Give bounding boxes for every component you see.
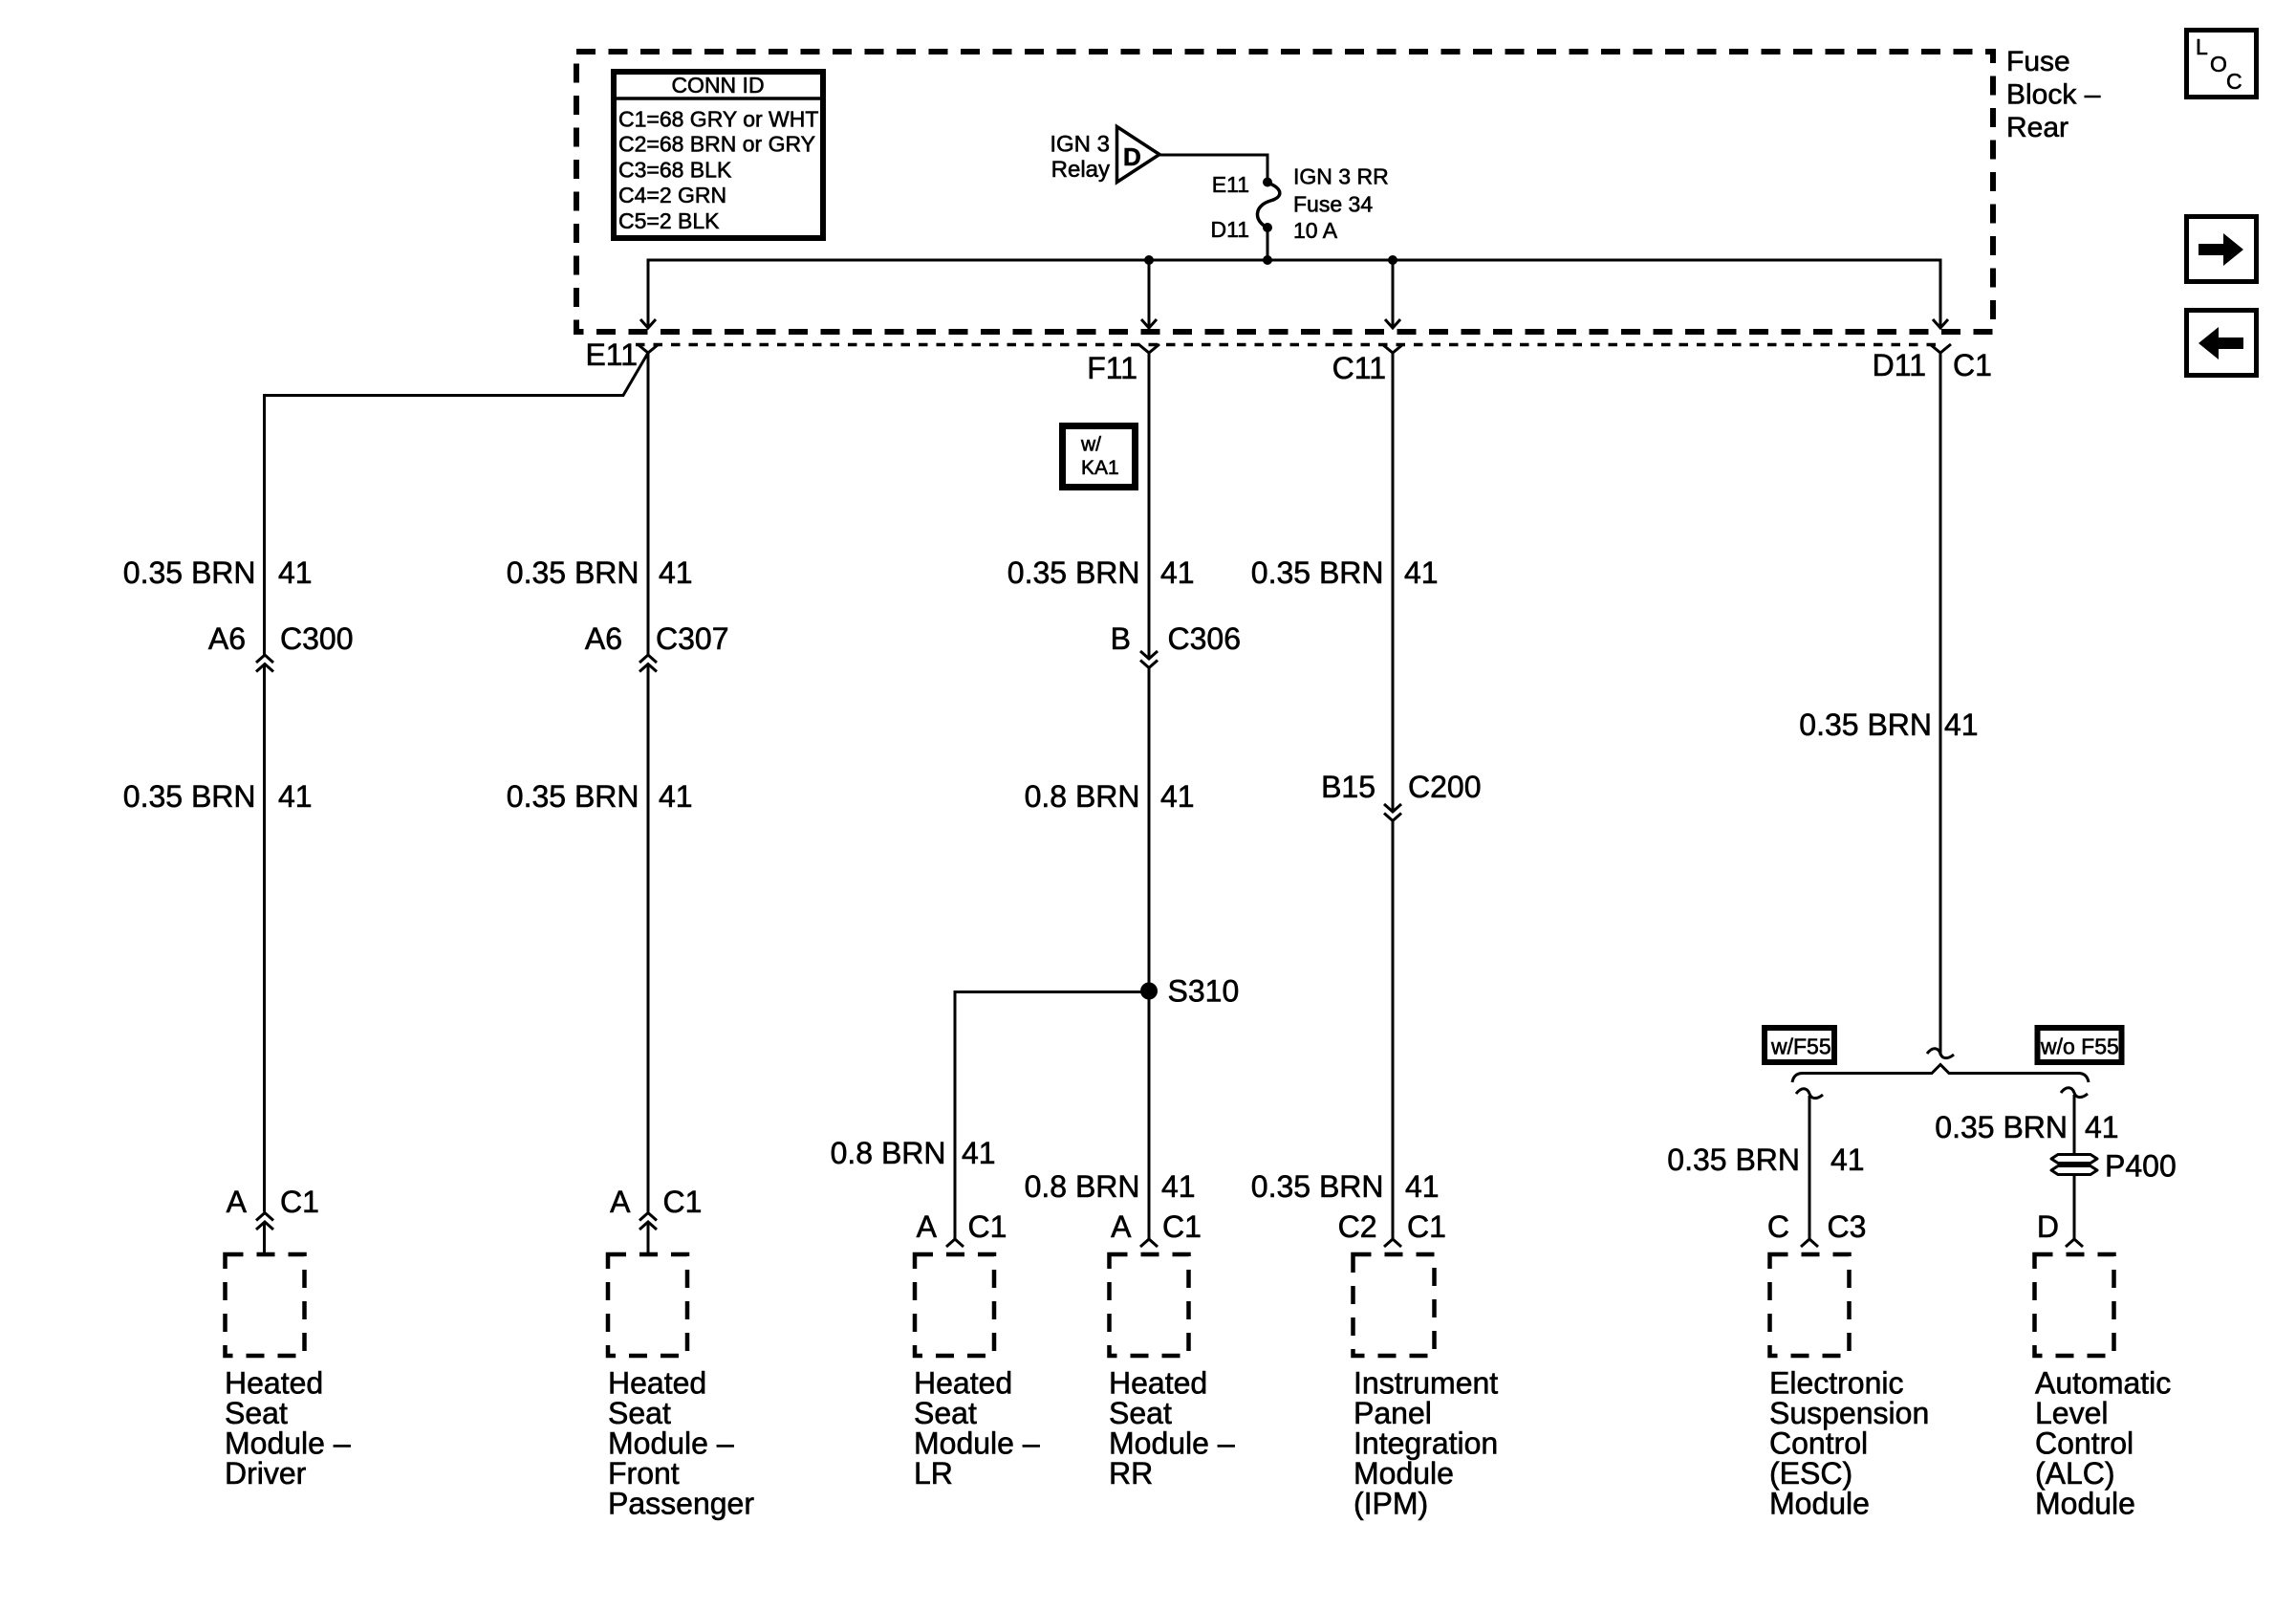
wire drop F11 [1148,260,1151,328]
svg-text:P400: P400 [2105,1149,2177,1184]
svg-text:0.35 BRN: 0.35 BRN [123,779,256,814]
wire label D11 column 0.35 BRN [1799,708,1978,742]
connector C1 dashed line (fuse block bottom) [636,343,1940,347]
right arrow nav box [2187,217,2257,282]
connector A/C1 driver labels [227,1185,319,1219]
connector C300 [256,655,273,672]
node D11 (fuse bottom) [1263,223,1272,232]
selection brace [1792,1065,2089,1083]
wire ALC branch upper [2073,1095,2076,1154]
svg-text:Module: Module [2035,1487,2135,1521]
connector A/C1 driver [256,1213,273,1254]
module box Heated Seat Module - RR [1110,1254,1189,1356]
module box ESC [1770,1254,1850,1356]
svg-text:C2: C2 [1338,1209,1377,1244]
svg-text:C1: C1 [1162,1209,1202,1244]
wire col2 below C307 [647,664,650,1212]
connector terminal D11 / C1 [1930,344,1951,353]
module box Heated Seat Module - Front Passenger [608,1254,687,1356]
svg-text:41: 41 [1944,708,1979,742]
wire col1 below C300 [263,664,266,1212]
CONN ID table [614,72,823,238]
svg-text:Relay: Relay [1051,157,1110,183]
svg-text:Driver: Driver [225,1456,307,1491]
svg-text:0.35 BRN: 0.35 BRN [507,555,639,590]
svg-text:C11: C11 [1332,351,1386,385]
connector A/C1 front passenger labels [610,1185,702,1219]
svg-text:A: A [917,1209,938,1244]
svg-text:Module: Module [1769,1487,1870,1521]
wire label col2 row2 [507,779,693,814]
connector C/C3 ESC labels [1767,1209,1867,1244]
svg-text:C: C [2226,69,2242,94]
svg-text:A6: A6 [208,621,246,656]
connector C2/C1 IPM labels [1338,1209,1446,1244]
connector terminal E11 [638,344,659,353]
svg-text:41: 41 [1405,1169,1440,1204]
svg-text:KA1: KA1 [1081,457,1119,479]
option box w/F55 [1765,1028,1834,1062]
svg-text:E11: E11 [1212,172,1249,197]
svg-text:Block –: Block – [2006,79,2101,111]
svg-text:0.8 BRN: 0.8 BRN [1025,779,1140,814]
svg-text:0.35 BRN: 0.35 BRN [1007,555,1140,590]
svg-text:41: 41 [962,1136,996,1170]
module label IPM [1354,1366,1498,1521]
svg-text:41: 41 [1160,779,1195,814]
wire label col1 row1 [123,555,313,590]
connector C200 labels [1321,770,1481,804]
fuse block label "Fuse Block - Rear" [2006,46,2101,143]
fuse 34 element [1257,183,1279,228]
svg-text:IGN 3: IGN 3 [1050,132,1110,158]
svg-text:(IPM): (IPM) [1354,1487,1428,1521]
svg-text:0.35 BRN: 0.35 BRN [1799,708,1932,742]
connector A/C1 front passenger [639,1213,657,1254]
svg-text:C1: C1 [1407,1209,1446,1244]
svg-text:41: 41 [659,555,693,590]
svg-text:RR: RR [1109,1456,1153,1491]
svg-text:41: 41 [1160,555,1195,590]
wire col4 below C200 [1392,821,1395,1240]
module label front passenger [608,1366,754,1521]
svg-text:C3: C3 [1828,1209,1867,1244]
module box IPM [1354,1254,1435,1356]
connector terminal F11 [1138,344,1159,353]
connector terminal ESC [1801,1239,1818,1247]
wire fuse to bus [1267,228,1269,260]
svg-text:LR: LR [914,1456,953,1491]
svg-text:L: L [2196,34,2208,59]
connector C306 [1140,651,1158,668]
svg-text:E11: E11 [585,337,638,372]
module box Heated Seat Module - Driver [226,1254,305,1356]
svg-text:C1: C1 [280,1185,319,1219]
arrowhead E11 drop [640,319,656,328]
arrowhead F11 drop [1141,319,1157,328]
svg-text:C4=2 GRN: C4=2 GRN [618,183,726,207]
svg-text:C: C [1767,1209,1789,1244]
module box ALC [2035,1254,2114,1356]
connector A/C1 RR labels [1111,1209,1202,1244]
svg-text:41: 41 [278,779,313,814]
connector C200 [1384,804,1401,821]
junction dot D11 feed [1263,255,1272,265]
svg-text:Rear: Rear [2006,112,2069,143]
fuse block dashed outline [576,52,1993,332]
svg-text:C300: C300 [280,621,354,656]
svg-text:CONN ID: CONN ID [671,73,764,98]
wire label LR 0.8 BRN [831,1136,996,1170]
module label RR [1109,1366,1235,1491]
module box Heated Seat Module - LR [915,1254,994,1356]
svg-text:F11: F11 [1087,351,1137,385]
svg-text:w/: w/ [1080,434,1101,456]
connector terminal LR [946,1239,964,1247]
svg-text:0.35 BRN: 0.35 BRN [507,779,639,814]
svg-text:0.35 BRN: 0.35 BRN [1251,555,1384,590]
svg-text:41: 41 [1404,555,1439,590]
wire F11 down to C306 [1148,353,1151,659]
module label ESC [1769,1366,1929,1521]
svg-text:B: B [1111,621,1131,656]
svg-text:0.35 BRN: 0.35 BRN [1251,1169,1384,1204]
svg-text:0.35 BRN: 0.35 BRN [1667,1143,1800,1177]
svg-text:D: D [2037,1209,2059,1244]
connector A/C1 LR labels [917,1209,1007,1244]
connector C306 labels [1111,621,1241,656]
module label LR [914,1366,1040,1491]
wire drop C11 [1392,260,1395,328]
svg-text:C3=68 BLK: C3=68 BLK [618,158,732,183]
svg-text:C306: C306 [1168,621,1242,656]
wire E11 down to C307 [647,353,650,655]
svg-text:C200: C200 [1408,770,1482,804]
svg-text:Fuse 34: Fuse 34 [1293,192,1373,217]
svg-text:41: 41 [2085,1110,2119,1144]
node E11 (fuse top) [1263,178,1272,187]
connector terminal ALC [2066,1239,2083,1247]
grommet P400 [2051,1149,2177,1184]
wire ALC branch lower [2073,1175,2076,1239]
wire label col1 row2 [123,779,313,814]
connector C307 labels [585,621,729,656]
svg-text:C2=68 BRN or GRY: C2=68 BRN or GRY [618,132,815,157]
svg-text:10 A: 10 A [1293,218,1338,243]
splice S310 [1140,983,1158,1000]
bus wire inside fuse block [648,260,1940,328]
svg-text:w/o F55: w/o F55 [2040,1034,2119,1059]
svg-text:41: 41 [1830,1143,1865,1177]
wire label ALC 0.35 BRN [1935,1110,2118,1144]
svg-text:C1: C1 [663,1185,703,1219]
svg-text:A: A [227,1185,248,1219]
svg-text:C1=68 GRY or WHT: C1=68 GRY or WHT [618,107,818,132]
module label driver [225,1366,351,1491]
wire break squiggle at D11 column [1927,1049,1954,1058]
svg-text:41: 41 [1161,1169,1196,1204]
wire label ESC 0.35 BRN [1667,1143,1864,1177]
svg-text:D11: D11 [1211,217,1250,242]
svg-text:D11: D11 [1873,348,1926,382]
svg-text:w/F55: w/F55 [1770,1034,1831,1059]
svg-text:0.8 BRN: 0.8 BRN [1025,1169,1140,1204]
wire S310 branch to LR [955,992,1149,1240]
relay IGN 3 triangle symbol [1050,127,1159,184]
arrowhead D11 drop [1933,319,1948,328]
connector terminal RR [1140,1239,1158,1247]
svg-text:0.35 BRN: 0.35 BRN [123,555,256,590]
svg-text:C307: C307 [656,621,729,656]
junction dot F11 [1144,255,1154,265]
wire ESC branch [1809,1096,1811,1239]
wire label col2 row1 [507,555,693,590]
connector C307 [639,655,657,672]
module label ALC [2035,1366,2171,1521]
svg-text:41: 41 [278,555,313,590]
connector terminal C11 [1382,344,1403,353]
connector terminal IPM [1384,1239,1401,1247]
arrowhead C11 drop [1385,319,1400,328]
svg-text:D: D [1123,142,1141,171]
wire label col3 row2 [1025,779,1195,814]
svg-text:O: O [2210,52,2227,76]
svg-text:IGN 3 RR: IGN 3 RR [1293,164,1389,189]
svg-text:A6: A6 [585,621,622,656]
svg-text:B15: B15 [1321,770,1375,804]
svg-text:C1: C1 [968,1209,1007,1244]
option box w/o F55 [2038,1028,2122,1062]
svg-text:S310: S310 [1168,974,1240,1009]
svg-text:0.8 BRN: 0.8 BRN [831,1136,946,1170]
svg-text:A: A [1111,1209,1132,1244]
wire D11/C1 down to break [1939,353,1942,1056]
junction dot C11 [1388,255,1397,265]
svg-text:Fuse: Fuse [2006,46,2070,77]
wire label col4 row1 [1251,555,1439,590]
connector C300 labels [208,621,354,656]
left arrow nav box [2187,311,2257,376]
wire break squiggle ALC branch [2061,1088,2088,1098]
wire label col3 row1 [1007,555,1195,590]
wire C11 down to C200 [1392,353,1395,812]
wire S310 down to RR [1148,991,1151,1240]
svg-text:41: 41 [659,779,693,814]
svg-text:Passenger: Passenger [608,1487,754,1521]
svg-text:0.35 BRN: 0.35 BRN [1935,1110,2068,1144]
wire E11 branch to driver column [265,353,649,655]
wire label IPM 0.35 BRN [1251,1169,1440,1204]
wire break squiggle ESC branch [1796,1089,1823,1099]
svg-text:C1: C1 [1953,348,1992,382]
wire col3 below C306 to S310 [1148,668,1151,991]
LOC legend box [2187,31,2257,98]
wire label RR 0.8 BRN [1025,1169,1196,1204]
svg-text:A: A [610,1185,631,1219]
wire relay to fuse E11 [1159,155,1267,178]
svg-text:C5=2 BLK: C5=2 BLK [618,208,720,233]
option box w/KA1 [1063,426,1136,488]
